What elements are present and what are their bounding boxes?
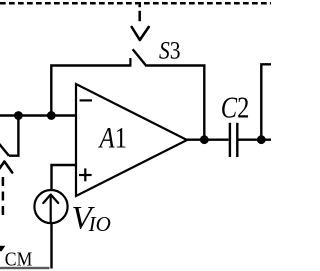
capacitor C2 right plate [236, 123, 238, 157]
op-amp minus sign [80, 99, 92, 101]
svg-text:C2: C2 [221, 90, 250, 125]
wire: right node up and off right edge [261, 64, 271, 139]
wire: non-inverting input to V_IO source [52, 165, 77, 190]
wire: op-amp output [186, 138, 229, 140]
node dot (right, under S3 branch) [47, 111, 56, 120]
node dot (right of C2) [257, 135, 266, 144]
arrowhead pointing up at left switch [0, 162, 12, 173]
wire: dashed control line to left switch [2, 177, 5, 215]
svg-text:A1: A1 [98, 121, 127, 154]
grey bar (cropped element, bottom left) [0, 267, 50, 269]
op-amp A1 body [76, 84, 187, 196]
op-amp plus sign [79, 174, 92, 176]
label V_CM (V cut off at left edge) [0, 246, 5, 251]
wire: dashed control drop to S3 [138, 2, 141, 7]
switch S3 left contact tick [129, 58, 131, 67]
wire: inverting input line from left edge [0, 114, 76, 116]
wire: dashed chopper control line (top) [0, 2, 271, 5]
switch blade (cut off at left edge) [0, 143, 9, 156]
wire: left node down to edge switch [9, 116, 19, 156]
voltage source V_IO circle [34, 190, 67, 223]
arrow inside V_IO source [50, 196, 52, 222]
switch S3 blade [133, 49, 147, 66]
capacitor C2 left plate [229, 123, 231, 157]
wire: node to S3 left contact [51, 66, 129, 116]
wire: below V_IO source [50, 223, 52, 269]
node dot (left) [14, 111, 23, 120]
svg-text:S3: S3 [159, 36, 181, 65]
arrowhead pointing down at S3 [132, 27, 149, 40]
node dot (output/feedback junction) [200, 135, 209, 144]
wire: C2 to right edge [239, 138, 272, 140]
wire: S3 right contact to feedback corner, down to output node [147, 66, 205, 140]
